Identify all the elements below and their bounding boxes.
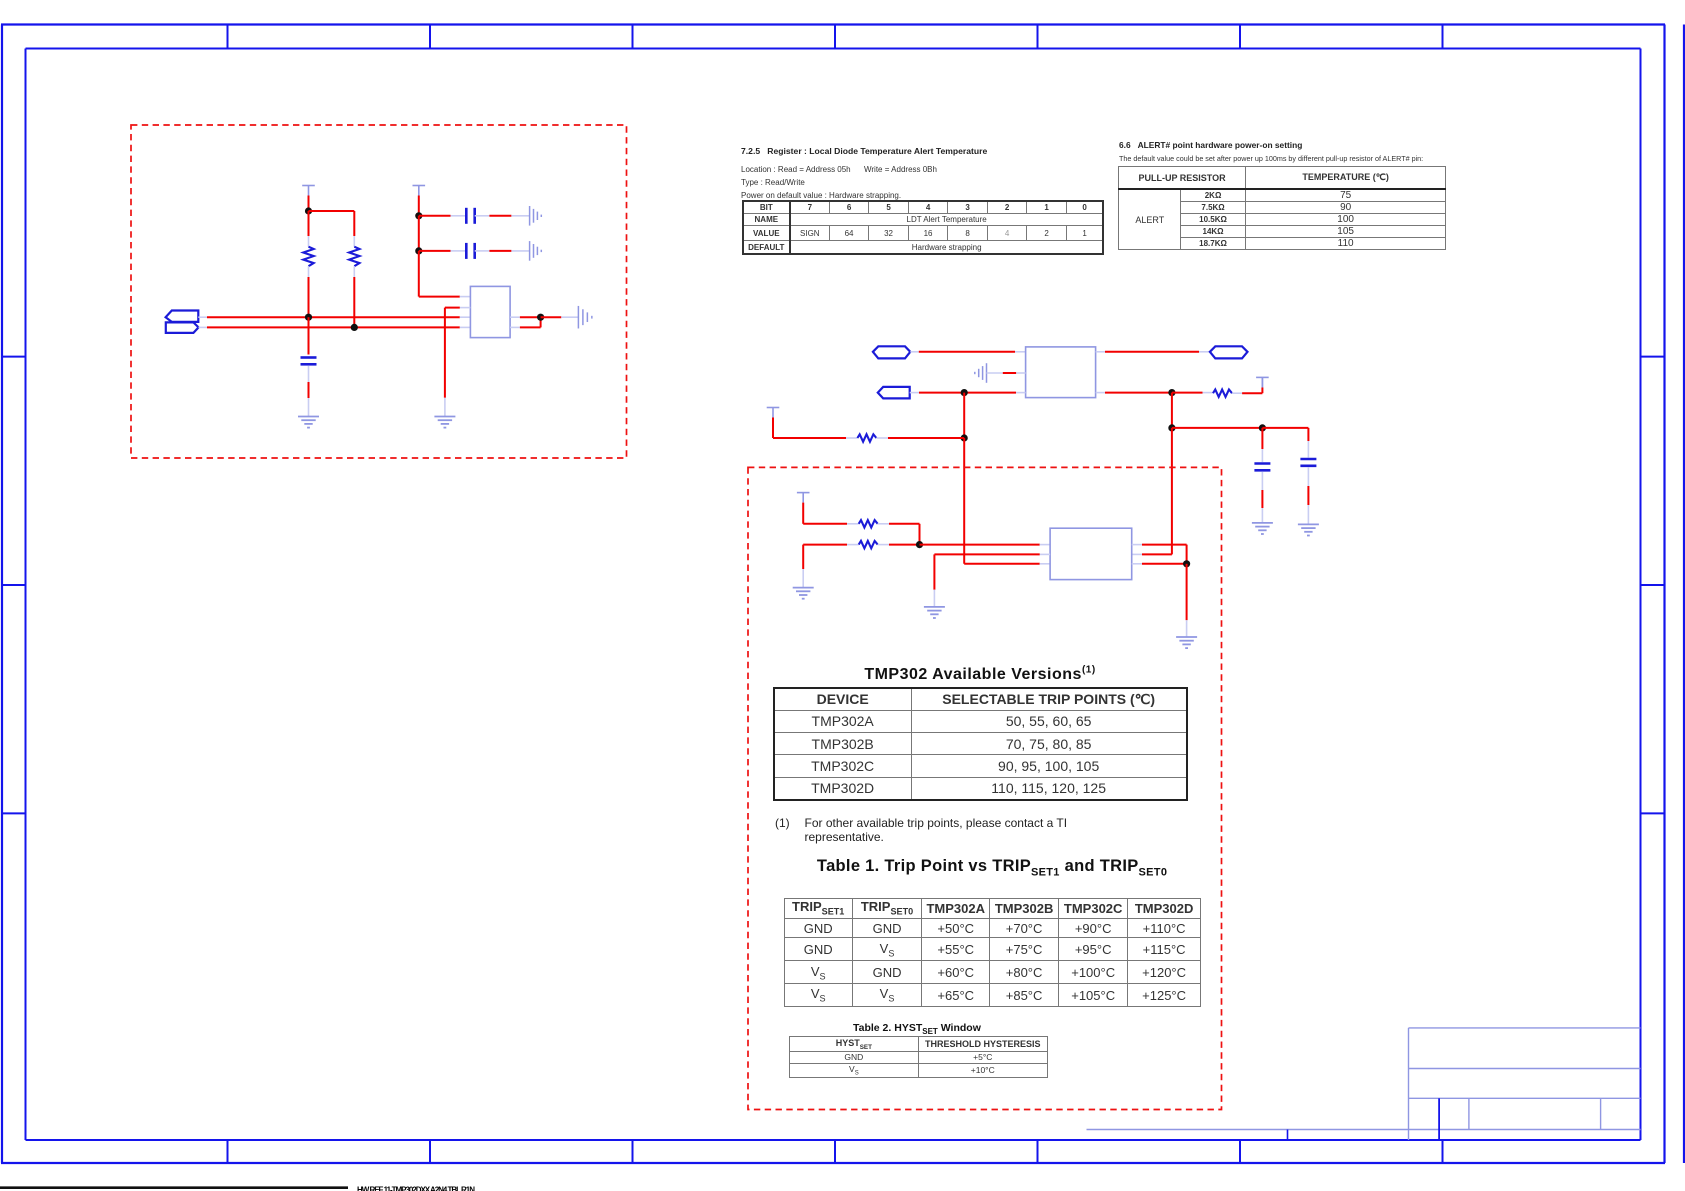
wire J10 down to U3	[1132, 428, 1172, 555]
resistor R2	[349, 247, 359, 267]
footer tiny caption	[357, 1186, 475, 1191]
wire CN3 to U2	[910, 351, 1025, 353]
capacitor C1	[301, 358, 317, 365]
wire P2 down	[418, 196, 420, 216]
wire U2 right pin to J9	[1096, 392, 1172, 394]
wire U1 pin2 to ground drop	[445, 308, 471, 417]
wire J7 down	[963, 393, 965, 438]
node J10	[1168, 424, 1175, 431]
resistor R1	[303, 247, 313, 267]
wire U3 pin2 to ground drop	[934, 554, 1050, 607]
wire P3 to R3	[773, 418, 857, 439]
trip point table	[784, 898, 1201, 1008]
IC U3	[1050, 528, 1132, 579]
power symbol P3	[767, 408, 780, 418]
wire C3 to ground	[475, 250, 530, 252]
wire J9 down to J10	[1171, 393, 1173, 428]
node J3	[351, 324, 358, 331]
wire J4 to J5	[418, 216, 420, 251]
ground G10	[924, 607, 945, 618]
ground G6	[975, 363, 987, 383]
power symbol P4	[1256, 377, 1269, 387]
wire R5 to J12	[878, 524, 920, 545]
node J9	[1168, 389, 1175, 396]
wire J8 down to U3	[964, 438, 1050, 564]
footnote (1)	[775, 816, 1120, 848]
wire ground riser to R6	[803, 545, 859, 588]
wire J5 down to U1 pin1	[419, 251, 471, 297]
heading 7.2.5	[741, 146, 1101, 160]
node J4	[415, 212, 422, 219]
wire U3 right bottom	[1132, 563, 1187, 565]
wire C2 to ground	[475, 215, 530, 217]
resistor R6	[859, 541, 878, 548]
wire C6 to ground	[1307, 468, 1309, 525]
wire R4 to P4	[1232, 377, 1262, 393]
capacitor C2	[466, 208, 474, 224]
ground G7	[1252, 523, 1273, 534]
node J6	[537, 314, 544, 321]
6.6 body text	[1119, 154, 1464, 164]
svg-text:HW REF 11-TMP302DXX A2N4 TBL R: HW REF 11-TMP302DXX A2N4 TBL R1N	[357, 1186, 475, 1191]
power symbol P1	[302, 186, 315, 196]
register sub lines	[741, 166, 1101, 206]
wire J6 to ground	[541, 316, 579, 318]
wire R6 to J12	[878, 544, 920, 546]
wire J4 to C2	[419, 215, 467, 217]
wire J11 to C6	[1262, 428, 1308, 458]
wire J9 to R4	[1172, 392, 1213, 394]
wire U1 right pins join	[510, 317, 540, 327]
wire J10 right	[1172, 427, 1263, 429]
wire R3 to J8	[876, 437, 964, 439]
IC U2	[1026, 347, 1096, 398]
wire J12 to U3 pin1	[920, 544, 1051, 546]
capacitor C5	[1254, 464, 1270, 471]
off-page connector CN2	[166, 322, 199, 333]
wire R2 bottom to bus2	[353, 266, 355, 327]
wire C1 to ground	[308, 366, 310, 417]
footer rule	[0, 1186, 348, 1189]
IC U1	[470, 286, 510, 337]
resistor R4	[1213, 390, 1232, 397]
wire R1 bottom to bus1	[308, 266, 310, 317]
hysteresis table	[789, 1036, 1048, 1078]
node J2	[305, 314, 312, 321]
power symbol P2	[413, 186, 426, 196]
heading TMP302 Available Versions	[773, 665, 1188, 685]
capacitor C6	[1300, 459, 1316, 466]
dashed boundary box 2	[748, 467, 1222, 1109]
wire P5 to R5	[803, 503, 859, 524]
off-page connector CN3	[873, 346, 910, 358]
node J12	[916, 541, 923, 548]
wire bus2	[199, 326, 471, 328]
node J13	[1183, 560, 1190, 567]
dashed boundary box 1	[131, 125, 627, 458]
wire P1 down	[308, 196, 310, 212]
ground G1	[298, 417, 319, 428]
node J11	[1259, 424, 1266, 431]
off-page connector CN4	[1210, 346, 1248, 358]
node J5	[415, 247, 422, 254]
capacitor C3	[466, 243, 474, 259]
heading 6.6	[1119, 140, 1459, 153]
heading Table 1	[784, 857, 1201, 879]
heading Table 2	[853, 1022, 1053, 1034]
wire C5 to ground	[1261, 472, 1263, 523]
ground G8	[1298, 524, 1319, 535]
register bit table	[742, 200, 1105, 255]
off-page connector CN1	[166, 311, 199, 322]
resistor R5	[859, 520, 878, 527]
ground G4	[434, 417, 455, 428]
ground G11	[1176, 637, 1197, 648]
node J7	[961, 389, 968, 396]
node J1	[305, 207, 312, 214]
off-page connector CN5	[878, 387, 910, 399]
wire J5 to C3	[419, 250, 467, 252]
wire bus1	[198, 316, 470, 318]
wire J1 to R2 top	[309, 211, 355, 247]
TMP302 versions table	[773, 687, 1188, 801]
node J8	[961, 434, 968, 441]
wire G6 to U2	[987, 372, 1026, 374]
wire J11 to C5 top	[1261, 428, 1263, 462]
ground G2	[530, 206, 542, 226]
wire J13 to ground	[1186, 564, 1188, 637]
wire J1 to R1 top	[308, 211, 310, 247]
wire CN5 to U2	[910, 392, 1026, 394]
ground G9	[793, 588, 814, 599]
resistor R3	[857, 434, 876, 441]
wire U3 right top	[1132, 545, 1187, 564]
wire J2 down to C1	[308, 317, 310, 354]
pull-up resistor table	[1118, 166, 1446, 250]
ground G5	[578, 306, 591, 329]
power symbol P5	[797, 493, 810, 503]
ground G3	[530, 241, 542, 261]
wire U2 to CN4	[1096, 351, 1210, 353]
title block	[1087, 1028, 1641, 1140]
